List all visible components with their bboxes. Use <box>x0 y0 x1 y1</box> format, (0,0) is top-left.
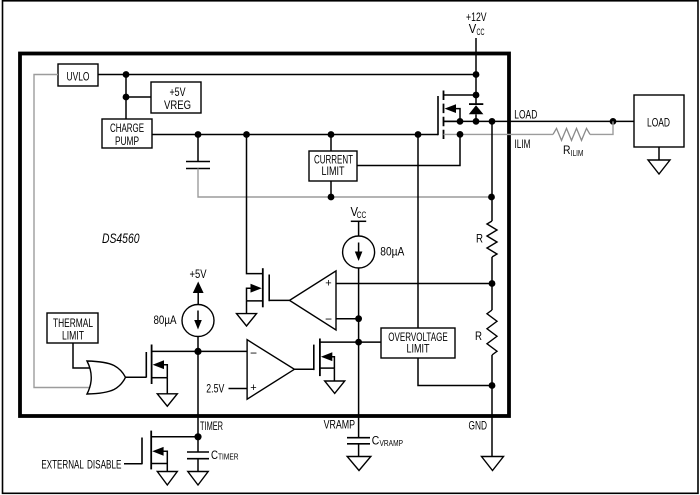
svg-text:VRAMP: VRAMP <box>380 438 404 448</box>
wire C1 plus input to divider tap <box>336 283 492 285</box>
svg-text:LIMIT: LIMIT <box>407 342 430 356</box>
svg-text:TIMER: TIMER <box>200 419 223 433</box>
transistor M3 (vramp pulldown) <box>314 339 359 382</box>
node junction gate/ov-limit <box>415 131 422 138</box>
wire current-limit right to ILIM sense <box>357 135 460 166</box>
block CHARGE PUMP <box>102 119 152 148</box>
node TIMER pin <box>194 419 223 440</box>
ground M_OR ground <box>157 394 177 406</box>
gate bar <box>437 96 439 135</box>
svg-text:CHARGE: CHARGE <box>110 121 144 135</box>
block THERMAL LIMIT <box>47 313 98 343</box>
drain stub <box>444 94 477 96</box>
wire C1 output to M2 gate <box>269 299 289 301</box>
node junction gate/cap <box>195 131 202 138</box>
ground M3 ground <box>325 381 345 393</box>
node junction current-limit bottom on feedback <box>328 194 335 201</box>
transistor M1 power MOSFET <box>438 91 476 140</box>
wire current-limit bottom to feedback line <box>330 181 332 197</box>
capacitor C_VRAMP <box>347 434 403 457</box>
wire gate line to OV limit top <box>417 135 419 329</box>
svg-text:ILIM: ILIM <box>515 137 531 151</box>
current source CS2 80uA (+5V) <box>154 267 215 337</box>
node 2.5V reference <box>206 382 247 396</box>
wire CS2 output down to TIMER pin <box>197 337 199 438</box>
wire C1 minus input to CS1 node <box>336 318 359 320</box>
svg-text:DISABLE: DISABLE <box>87 458 122 472</box>
wire current-limit top to gate line <box>330 135 332 152</box>
wire OV limit output to divider bottom <box>418 358 492 386</box>
svg-text:R: R <box>476 232 483 246</box>
transistor M_OR (timer pulldown) <box>146 345 198 394</box>
node EXTERNAL DISABLE input <box>41 458 142 472</box>
ground C_TIMER ground <box>188 472 208 486</box>
ground LOAD ground <box>648 147 670 174</box>
wire C2 output to M3 gate <box>294 368 313 370</box>
svg-text:R: R <box>475 329 482 343</box>
wire CS1 output down to VRAMP pin <box>358 268 360 437</box>
svg-text:EXTERNAL: EXTERNAL <box>41 458 84 472</box>
svg-text:ILIM: ILIM <box>571 148 584 158</box>
svg-text:+: + <box>325 278 331 290</box>
wire timer pin to M4 drain <box>151 436 198 438</box>
wire ILIM sense line (gray) <box>444 133 554 135</box>
body stub with arrow <box>445 104 457 113</box>
ground M2 ground <box>237 314 257 326</box>
wire down to VREG tap <box>125 75 127 120</box>
wire OR output to M_OR gate <box>126 376 147 378</box>
svg-text:−: − <box>250 346 257 360</box>
svg-text:LOAD: LOAD <box>647 116 670 130</box>
block UVLO <box>58 64 98 86</box>
current source CS1 80uA (VCC) <box>343 205 405 268</box>
svg-text:+5V: +5V <box>170 85 186 99</box>
svg-text:GND: GND <box>469 419 488 433</box>
capacitor gate boost cap <box>186 135 210 169</box>
ground M4 ground <box>157 472 177 486</box>
node junction VCC/UVLO <box>473 71 480 78</box>
svg-text:C: C <box>372 434 380 448</box>
svg-text:2.5V: 2.5V <box>206 382 224 396</box>
svg-text:+: + <box>250 382 256 394</box>
wire UVLO output to VCC line <box>98 74 476 76</box>
svg-text:CC: CC <box>477 27 485 37</box>
node junction source/divider <box>489 118 496 125</box>
divider chain: wire LOAD to R top <box>491 121 493 221</box>
svg-text:LOAD: LOAD <box>514 108 537 122</box>
resistor RILIM <box>553 121 613 157</box>
op-amp C1 current limit comparator (points left) <box>290 271 337 330</box>
resistor R lower <box>475 310 497 355</box>
gate OR gate <box>87 361 126 394</box>
wire R lower to GND pin <box>491 355 493 457</box>
channel (dashed) <box>443 91 445 140</box>
node junction feedback/divider <box>488 194 495 201</box>
node junction VREG tap <box>123 94 130 101</box>
node junction gate/current-limit <box>328 131 335 138</box>
source stub <box>444 120 461 122</box>
svg-text:CC: CC <box>357 210 367 220</box>
node junction cmp1 minus <box>355 315 362 322</box>
wire VCC vertical into IC <box>475 38 477 95</box>
node +12V VCC supply label <box>466 10 487 37</box>
block LOAD (external) <box>634 95 684 147</box>
wire to +5V VREG <box>126 96 151 98</box>
svg-text:LIMIT: LIMIT <box>322 164 345 178</box>
svg-text:VREG: VREG <box>164 98 191 112</box>
svg-text:+5V: +5V <box>190 267 207 281</box>
capacitor C_TIMER <box>187 437 239 472</box>
node junction LOAD/RILIM <box>610 118 617 125</box>
block OVERVOLTAGE LIMIT <box>381 328 455 358</box>
wire gate drive line (charge pump to M1 gate) <box>152 134 438 136</box>
resistor R upper <box>476 221 497 257</box>
svg-text:UVLO: UVLO <box>67 70 90 84</box>
wire LOAD line (M1 source out to LOAD box) <box>444 120 635 122</box>
IC boundary (thick) <box>20 54 509 417</box>
svg-text:−: − <box>325 312 332 326</box>
ground GND ground <box>482 457 504 471</box>
transistor M2 (gate pulldown, mirrored) <box>247 268 270 313</box>
block CURRENT LIMIT <box>309 151 357 181</box>
svg-text:80µA: 80µA <box>154 313 177 327</box>
node junction timer node <box>194 348 201 355</box>
node junction divider tap <box>489 280 496 287</box>
wire gray UVLO loop (left side to OR gate) <box>34 75 92 388</box>
svg-text:VRAMP: VRAMP <box>324 418 356 432</box>
node junction divider bottom/OV out <box>489 382 496 389</box>
wire R upper to tap <box>491 257 493 310</box>
node junction gate/M2 <box>243 131 250 138</box>
transistor M4 external disable <box>142 431 167 472</box>
block +5V VREG <box>151 82 201 113</box>
node junction source/body <box>457 118 464 125</box>
node junction M3 drain / OV in <box>355 339 362 346</box>
svg-text:TIMER: TIMER <box>218 452 239 462</box>
node junction UVLO/VREG <box>123 71 130 78</box>
wire timer node to C2 minus <box>198 350 247 352</box>
wire thermal limit to OR input <box>73 343 92 368</box>
svg-text:R: R <box>563 143 571 157</box>
wire gray feedback from cap to divider top <box>198 169 492 198</box>
svg-text:PUMP: PUMP <box>115 134 139 148</box>
node junction ILIM/current-limit <box>457 131 464 138</box>
node junction source/diode <box>473 118 480 125</box>
ground C_VRAMP ground <box>347 457 371 471</box>
svg-text:DS4560: DS4560 <box>102 230 140 246</box>
diode body diode <box>469 95 484 121</box>
svg-text:80µA: 80µA <box>380 245 404 259</box>
op-amp C2 timer comparator (points right) <box>247 340 294 400</box>
svg-text:LIMIT: LIMIT <box>62 329 84 343</box>
wire gate line to M2 drain <box>247 135 263 274</box>
node junction VCC/M1 drain <box>473 92 480 99</box>
wire OV limit input from vramp node <box>359 341 381 343</box>
